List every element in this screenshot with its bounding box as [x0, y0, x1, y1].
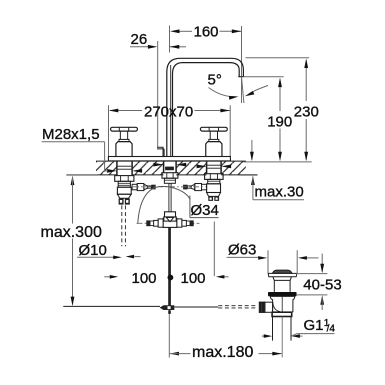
dim max.300 vertical line + arrows: [71, 176, 75, 186]
right valve side outlet end cap: [183, 185, 187, 190]
linkage rod dashed section to drain: [218, 305, 257, 307]
svg-text:100: 100: [132, 270, 157, 287]
drain flange lip: [268, 273, 297, 276]
dim dia10 right pinch arrow: [135, 256, 141, 258]
drain body inner curve to side port: [273, 302, 280, 312]
spout outlet face: [238, 76, 243, 78]
left valve body: [117, 187, 131, 194]
pop-up rod knob: [157, 147, 164, 156]
drain tailpipe centerline: [281, 317, 283, 358]
cross joint lower stub: [168, 310, 171, 314]
svg-text:G1: G1: [304, 317, 324, 334]
deck plate (escutcheon): [108, 157, 230, 161]
dim 40-53 top reference line: [296, 273, 327, 275]
svg-text:M28x1,5: M28x1,5: [42, 126, 100, 143]
dim 190 top reference line (outlet extended): [244, 76, 284, 78]
cross handle at x=124.0 : bar: [111, 127, 138, 131]
svg-text:Ø63: Ø63: [228, 241, 256, 258]
left valve thread: [118, 181, 130, 187]
pop-up rod lower (solid): [168, 227, 171, 305]
dim max.30 down shaft + arrow: [251, 140, 253, 160]
dim 26 extension line (x=157.7) down to pop-up rod: [157, 41, 159, 147]
svg-text:max.300: max.300: [41, 224, 102, 241]
counter bottom line segments: [66, 174, 116, 176]
dia 34 label box lines: [189, 196, 191, 218]
5deg right leader curve + arrow: [248, 86, 268, 95]
middle shank seam washer: [166, 167, 174, 170]
right valve mounting nut: [205, 174, 224, 180]
pop-up rod upper (double line): [168, 183, 170, 212]
dim max.180 line + arrows: [170, 352, 180, 356]
linkage rod right of cross: [174, 306, 218, 308]
dim 100-100 right extension (from dia34 box): [213, 222, 215, 277]
left valve shank walls: [116, 161, 118, 176]
svg-text:26: 26: [131, 31, 148, 48]
handle hub lines: [118, 127, 120, 131]
right valve shank walls: [206, 161, 208, 174]
tee fitting top nut: [165, 212, 176, 217]
dim 100-100 right arrow: [225, 276, 229, 278]
handle collar: [119, 139, 129, 141]
left valve dashed supply lines: [121, 205, 123, 246]
tee left collar: [158, 219, 163, 227]
tee left nipple blocks: [154, 220, 159, 226]
drain side port: [265, 302, 273, 312]
hose connector centerline (dash-dot): [133, 186, 206, 188]
left valve side outlet cone: [144, 184, 148, 189]
dim 160 extension line left (x=169.5): [169, 26, 171, 53]
5deg tilted outlet axis: [242, 77, 244, 103]
tee centerline (dash-dot): [137, 222, 200, 224]
handle stem: [119, 131, 121, 139]
linkage rod left section: [63, 305, 160, 307]
left valve side outlet tube: [148, 186, 152, 188]
svg-text:max.180: max.180: [192, 344, 253, 361]
svg-text:230: 230: [294, 104, 319, 121]
svg-text:100: 100: [181, 270, 206, 287]
counter hatched section: [96, 161, 246, 174]
right valve taper: [207, 193, 221, 197]
left shank pinch arrows (M28 thread): [107, 169, 117, 173]
dim 40-53 bottom reference line: [296, 294, 327, 296]
tee right nipple blocks: [182, 220, 187, 226]
dim 26 line + arrows: [130, 46, 149, 48]
drain bottom ring: [272, 312, 292, 316]
spout riser highlight line: [170, 65, 172, 156]
svg-text:max.30: max.30: [255, 184, 304, 201]
dim max.30 bottom reference line: [239, 174, 257, 176]
right valve side outlet hex nipple: [195, 184, 202, 191]
left valve taper: [117, 194, 131, 198]
handle body: [206, 142, 222, 157]
right valve side outlet cone: [191, 184, 195, 189]
handle body: [116, 142, 132, 157]
right valve side outlet stub: [202, 184, 207, 190]
drain body center seam: [281, 296, 283, 312]
spout outer contour: [167, 58, 244, 156]
dim 190 vertical line + arrows: [279, 80, 281, 112]
svg-text:Ø10: Ø10: [79, 242, 107, 259]
handle collar: [209, 139, 219, 141]
middle mounting nut: [162, 173, 178, 179]
dia 63 pinch arrows: [258, 256, 267, 260]
dim 100-100 line left arrow: [104, 276, 109, 278]
middle thread: [164, 178, 175, 183]
dim max.300 top reference line: [66, 174, 97, 176]
rosette arc (leader to dia 34): [138, 186, 190, 223]
dim max.180 left extension line: [168, 315, 170, 358]
left valve side outlet hex nipple: [137, 184, 144, 191]
dim max.30 up arrow + leader to label: [251, 176, 255, 186]
handle hub lines: [208, 127, 210, 131]
G1 1/4 pinch arrows on tailpipe: [262, 335, 264, 337]
svg-text:5°: 5°: [208, 72, 222, 89]
spout inner contour: [173, 63, 240, 157]
drain body below seal: [270, 296, 295, 312]
left valve side outlet end cap: [151, 185, 155, 190]
counter top reference line right: [243, 161, 311, 163]
dim 160 extension line right (x=241.5): [241, 26, 243, 77]
right valve shank seams: [207, 164, 220, 166]
left valve shank seams: [118, 165, 132, 167]
left valve hose ends: [119, 198, 124, 204]
tee right collar: [177, 219, 182, 227]
G1 1/4 leader underline: [292, 334, 335, 336]
svg-text:Ø34: Ø34: [191, 202, 219, 219]
left valve side outlet stub: [132, 184, 137, 190]
dim 270x70 line + arrows: [110, 110, 142, 112]
svg-text:/4: /4: [327, 323, 336, 334]
dia 63 extension lines: [267, 250, 269, 273]
svg-text:190: 190: [267, 114, 292, 131]
dim 230 top reference line (spout top extended): [246, 57, 310, 59]
left valve mounting nut: [115, 176, 134, 182]
5deg left leader curve + arrow: [209, 88, 235, 97]
dim 40-53 arrows: [321, 254, 323, 272]
svg-text:40-53: 40-53: [303, 276, 341, 293]
drain knurled nut: [259, 302, 265, 313]
tee fitting funnel block with V: [164, 217, 176, 221]
right valve thread: [208, 179, 220, 183]
dim 270x70 extension line left (x=108.5): [108, 105, 110, 156]
right valve hose ends: [208, 197, 213, 201]
drain stopper cap (dark dome): [273, 270, 292, 273]
cross joint: [160, 305, 175, 310]
dim 230 vertical line + arrows: [305, 61, 307, 102]
right shank pinch arrows: [197, 165, 207, 169]
dim 160 line + arrows: [179, 30, 192, 32]
handle stem: [209, 131, 211, 139]
dim 270x70 extension line right (x=230.2): [229, 105, 231, 156]
drain rubber seal (black band): [268, 292, 297, 296]
svg-text:270x70: 270x70: [144, 103, 193, 120]
right valve side outlet tube: [187, 186, 191, 188]
right valve body: [207, 184, 221, 193]
5deg vertical reference continuation: [241, 77, 243, 103]
cross handle at x=213.85 : bar: [200, 127, 227, 131]
drain neck: [273, 277, 292, 292]
middle shank walls: [163, 161, 165, 173]
tee fitting main body: [163, 218, 177, 227]
middle shank pinch arrows: [154, 163, 164, 167]
counter top line: [96, 160, 246, 162]
drain tailpipe walls: [272, 317, 274, 341]
svg-text:160: 160: [194, 24, 219, 41]
